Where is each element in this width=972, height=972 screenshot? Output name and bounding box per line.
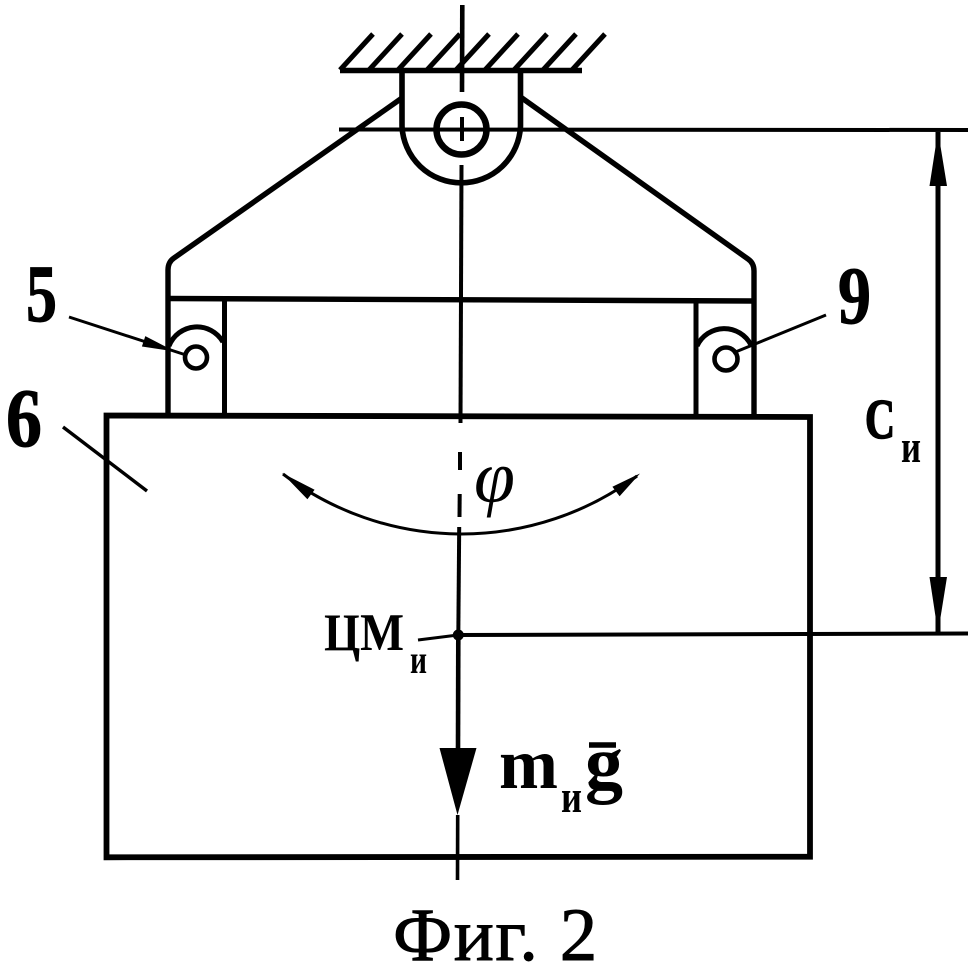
phi arc left arrowhead <box>282 473 315 499</box>
vertical centerline top segment <box>460 5 465 92</box>
phi swing arc <box>283 474 637 534</box>
tick from CM label to dot <box>418 635 458 640</box>
centerline below arrowhead <box>456 815 460 880</box>
svg-text:m: m <box>499 724 558 804</box>
clevis bracket U-shape <box>402 70 521 183</box>
svg-text:ЦМ: ЦМ <box>324 604 404 662</box>
macron over g <box>589 742 616 748</box>
dimension top arrowhead <box>930 131 948 186</box>
left clevis arc <box>169 327 223 346</box>
svg-text:9: 9 <box>838 250 871 341</box>
body rectangle 6 <box>107 416 811 858</box>
center of mass dot <box>453 630 464 641</box>
right clevis arc <box>697 329 751 346</box>
svg-text:6: 6 <box>6 372 42 465</box>
weight vector shaft <box>456 637 461 748</box>
svg-text:φ: φ <box>474 437 515 519</box>
leader arrowhead 5 <box>142 336 175 351</box>
dimension bottom arrowhead <box>930 577 948 633</box>
vertical centerline dash 2 <box>458 494 462 517</box>
vertical centerline lower segment <box>456 527 461 637</box>
leader line to label 9 <box>733 315 826 353</box>
bar top chord <box>168 299 754 302</box>
right sling diagonal and right side vertical <box>521 97 755 418</box>
right clevis inner vertical <box>694 301 699 417</box>
horizontal centerline / extension line through pivot <box>339 128 968 133</box>
vertical centerline tick through pivot <box>460 117 464 141</box>
leader line to label 6 <box>63 427 147 491</box>
left pin 5 <box>185 347 207 369</box>
pivot pin circle <box>437 105 487 155</box>
vertical centerline mid segment <box>461 165 462 423</box>
svg-text:и: и <box>901 421 921 472</box>
left clevis inner vertical <box>222 299 227 417</box>
vertical centerline dash <box>458 452 462 470</box>
ceiling hatch strokes <box>340 34 605 70</box>
phi arc right arrowhead <box>612 474 640 497</box>
extension line at CM level <box>458 634 968 636</box>
dimension line c <box>936 132 941 632</box>
svg-text:и: и <box>410 637 427 682</box>
weight vector arrowhead <box>440 748 477 815</box>
svg-text:g: g <box>585 721 623 805</box>
right pin 9 <box>715 348 738 371</box>
ceiling support line <box>340 68 582 74</box>
svg-text:5: 5 <box>26 248 57 339</box>
leader line to label 5 <box>69 317 186 355</box>
svg-text:и: и <box>561 771 582 822</box>
svg-text:Фиг. 2: Фиг. 2 <box>393 894 599 972</box>
left sling diagonal and left side vertical <box>168 98 402 418</box>
svg-text:C: C <box>865 389 895 451</box>
